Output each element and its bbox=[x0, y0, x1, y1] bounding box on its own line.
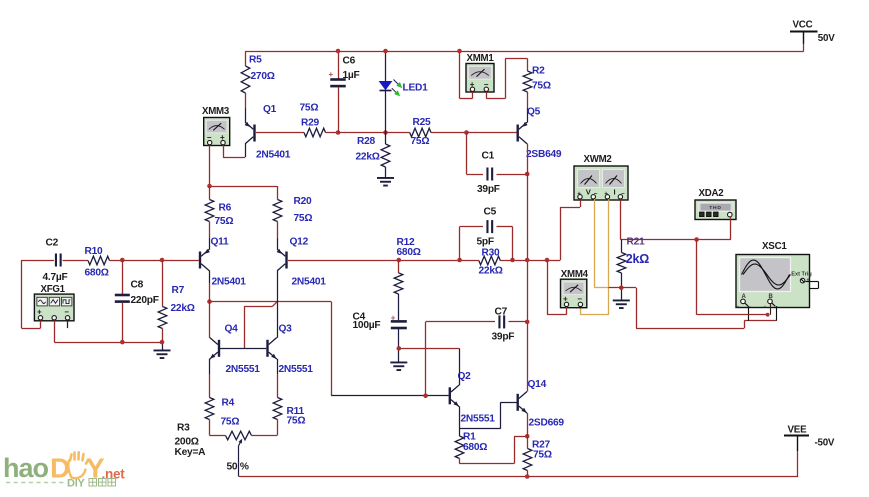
transistor Q11 2N5401 bbox=[199, 236, 246, 287]
capacitor C4 100uF bbox=[353, 294, 407, 362]
svg-text:2kΩ: 2kΩ bbox=[626, 252, 649, 266]
ground below R28 bbox=[377, 177, 394, 187]
wire XFG1 plus to input node bbox=[21, 260, 40, 329]
wire R25 to C1 tap bbox=[431, 132, 466, 134]
wire XWM2 V+ to output node bbox=[560, 199, 580, 260]
distortion analyzer XDA2 bbox=[695, 188, 736, 220]
wire XFG1 common down bbox=[54, 321, 56, 343]
wire rail to XMM1 plus bbox=[460, 51, 473, 99]
svg-text:22kΩ: 22kΩ bbox=[171, 303, 195, 314]
VEE supply symbol bbox=[784, 425, 835, 478]
oscilloscope XSC1 bbox=[736, 241, 812, 310]
svg-text:R10: R10 bbox=[85, 246, 104, 257]
node tail junction bbox=[207, 184, 212, 189]
svg-text:39pF: 39pF bbox=[492, 332, 515, 343]
svg-text:R1: R1 bbox=[463, 432, 476, 443]
node R7 ground junction bbox=[160, 340, 165, 345]
svg-text:2SB649: 2SB649 bbox=[526, 149, 562, 160]
wire scope B input stub bbox=[770, 304, 772, 315]
svg-text:75Ω: 75Ω bbox=[300, 103, 319, 114]
svg-text:R20: R20 bbox=[294, 196, 313, 207]
svg-text:XWM2: XWM2 bbox=[584, 154, 612, 165]
resistor R7 bbox=[158, 260, 195, 342]
svg-text:2N5401: 2N5401 bbox=[212, 277, 247, 288]
resistor R27 bbox=[523, 440, 552, 477]
wire XWM2 V- orange bbox=[595, 199, 609, 288]
wire XMM3 minus to diff pair tail bbox=[209, 145, 211, 186]
svg-text:C1: C1 bbox=[482, 151, 495, 162]
svg-text:75Ω: 75Ω bbox=[532, 81, 551, 92]
VAS drive line from Q11 collector bbox=[210, 301, 332, 303]
svg-text:Key=A: Key=A bbox=[175, 447, 207, 458]
wire ground node to scope A bbox=[609, 288, 777, 329]
node XMM4 tap bbox=[545, 258, 550, 263]
wire XFG1 common to ground node bbox=[54, 342, 162, 344]
node rail XMM1 tap bbox=[457, 49, 462, 54]
svg-text:I: I bbox=[614, 188, 616, 197]
node scope B tap bbox=[694, 237, 699, 242]
node R27 top junction bbox=[525, 434, 530, 439]
function generator XFG1 bbox=[34, 284, 74, 321]
svg-text:2N5551: 2N5551 bbox=[461, 414, 496, 425]
top power rail VCC net bbox=[245, 51, 803, 53]
resistor R5 bbox=[241, 51, 275, 93]
svg-text:+: + bbox=[807, 278, 810, 284]
svg-text:680Ω: 680Ω bbox=[463, 442, 487, 453]
wire R5 to Q1 emitter bbox=[245, 93, 247, 123]
main output feedback line bbox=[288, 260, 560, 262]
svg-text:C8: C8 bbox=[131, 280, 144, 291]
node C7 to output vertical bbox=[525, 320, 530, 325]
node C6 bottom junction bbox=[336, 130, 341, 135]
svg-text:XMM4: XMM4 bbox=[561, 269, 589, 280]
wire Q11 collector to Q4 collector bbox=[209, 271, 211, 338]
svg-text:XFG1: XFG1 bbox=[41, 284, 66, 295]
svg-text:Q12: Q12 bbox=[290, 237, 309, 248]
svg-text:2N5551: 2N5551 bbox=[279, 364, 314, 375]
capacitor C6 1uF bbox=[329, 51, 360, 133]
svg-text:Q3: Q3 bbox=[279, 324, 293, 335]
capacitor C7 39pF bbox=[426, 307, 528, 396]
svg-text:+: + bbox=[329, 70, 334, 79]
svg-text:.net: .net bbox=[102, 467, 126, 482]
resistor R6 bbox=[205, 186, 233, 250]
node R27 bottom on rail bbox=[525, 474, 530, 479]
svg-text:22kΩ: 22kΩ bbox=[356, 152, 380, 163]
svg-text:680Ω: 680Ω bbox=[397, 247, 421, 258]
resistor R28 bbox=[356, 133, 390, 178]
svg-text:270Ω: 270Ω bbox=[251, 71, 275, 82]
svg-text:1µF: 1µF bbox=[343, 70, 360, 81]
wire Q1 base to R29 bbox=[256, 132, 304, 134]
resistor R11 bbox=[273, 359, 305, 436]
svg-text:R7: R7 bbox=[172, 285, 185, 296]
node Q11 collector tap bbox=[207, 299, 212, 304]
wire R21 top line to XDA2 bbox=[620, 239, 731, 241]
svg-text:LED1: LED1 bbox=[403, 83, 429, 94]
resistor R1 bbox=[455, 429, 487, 464]
resistor R25 bbox=[410, 117, 431, 147]
svg-text:75Ω: 75Ω bbox=[533, 450, 552, 461]
wire VAS line down to Q2 base line bbox=[331, 302, 333, 396]
wire Q2 emitter to Q14 base bbox=[459, 402, 516, 429]
svg-text:75Ω: 75Ω bbox=[221, 417, 240, 428]
svg-text:DIY: DIY bbox=[67, 478, 86, 490]
transistor Q3 2N5551 bbox=[266, 324, 313, 376]
capacitor C2 4.7uF bbox=[43, 238, 68, 284]
wire Ext Trig stub bbox=[806, 282, 819, 289]
svg-text:5pF: 5pF bbox=[477, 237, 494, 248]
stub XFG1 minus bbox=[67, 321, 69, 329]
node C5 left tap bbox=[457, 258, 462, 263]
node LED top on rail bbox=[383, 49, 388, 54]
wire output vertical Q5 collector to Q14 collector bbox=[527, 144, 529, 392]
VCC supply symbol bbox=[790, 20, 835, 52]
node output line crossing bbox=[525, 258, 530, 263]
capacitor C1 39pF bbox=[466, 133, 527, 196]
svg-text:Q4: Q4 bbox=[225, 324, 239, 335]
wire XMM3 plus to Q1 collector bbox=[223, 144, 246, 158]
svg-text:hao: hao bbox=[3, 453, 49, 483]
svg-text:R25: R25 bbox=[413, 117, 432, 128]
node C4 ground tap bbox=[397, 346, 402, 351]
svg-text:39pF: 39pF bbox=[477, 184, 500, 195]
svg-text:R2: R2 bbox=[532, 66, 545, 77]
wire XDA2 terminal down bbox=[730, 217, 732, 240]
svg-text:200Ω: 200Ω bbox=[175, 437, 199, 448]
wire C6 node to LED node bbox=[338, 132, 386, 134]
node C8 bottom junction bbox=[120, 340, 125, 345]
svg-text:50 %: 50 % bbox=[227, 462, 249, 473]
haoDIY logo bbox=[3, 452, 125, 489]
svg-text:R3: R3 bbox=[177, 423, 190, 434]
svg-text:50V: 50V bbox=[818, 33, 835, 44]
svg-text:75Ω: 75Ω bbox=[287, 416, 306, 427]
transistor Q5 2SB649 bbox=[517, 107, 562, 161]
svg-text:Q11: Q11 bbox=[211, 236, 230, 247]
svg-text:R30: R30 bbox=[482, 248, 501, 259]
node C8 tap bbox=[120, 258, 125, 263]
resistor R29 bbox=[300, 103, 326, 137]
svg-text:VCC: VCC bbox=[793, 20, 813, 31]
wire R2 to Q5 emitter bbox=[527, 92, 529, 123]
resistor R20 bbox=[273, 186, 312, 250]
svg-text:XMM1: XMM1 bbox=[467, 53, 495, 64]
wire scope A ground elbow bbox=[748, 306, 750, 321]
resistor R10 bbox=[85, 246, 110, 279]
wire XWM2 I- to R21 bbox=[620, 199, 622, 239]
input line wire from C2 node to Q11 base bbox=[21, 260, 54, 262]
svg-text:C2: C2 bbox=[46, 238, 59, 249]
node C7 tap on base line bbox=[423, 394, 428, 399]
LED LED1 bbox=[379, 51, 429, 133]
svg-text:2SD669: 2SD669 bbox=[529, 418, 565, 429]
wire XWM2 I+ orange to XMM4 minus bbox=[580, 199, 608, 315]
node C1 tap junction bbox=[464, 130, 469, 135]
ground at R7 bbox=[154, 342, 171, 359]
svg-text:R4: R4 bbox=[222, 398, 235, 409]
svg-text:R29: R29 bbox=[301, 118, 320, 129]
resistor R21 2k bbox=[617, 236, 649, 299]
potentiometer R3 200 Ohm bbox=[175, 423, 278, 477]
node R7 tap bbox=[160, 258, 165, 263]
svg-text:2N5401: 2N5401 bbox=[292, 277, 327, 288]
node R21 ground tap bbox=[619, 286, 624, 291]
ground below R21 bbox=[613, 300, 630, 310]
node C5 right tap bbox=[510, 258, 515, 263]
resistor R2 bbox=[523, 66, 551, 93]
svg-text:-50V: -50V bbox=[815, 438, 835, 449]
capacitor C5 5pF bbox=[460, 207, 513, 261]
multimeter XMM1 bbox=[466, 53, 494, 92]
wire mirror base feed bbox=[244, 302, 277, 349]
svg-text:2N5551: 2N5551 bbox=[226, 364, 261, 375]
wire Q14 emitter to R27 bbox=[527, 413, 529, 449]
svg-text:R6: R6 bbox=[219, 203, 232, 214]
wire R1 bottom to R27 top node bbox=[459, 436, 527, 463]
svg-text:2N5401: 2N5401 bbox=[256, 150, 291, 161]
node C1 to output vertical bbox=[525, 172, 530, 177]
resistor R12 bbox=[394, 237, 421, 294]
transistor Q4 2N5551 bbox=[210, 324, 261, 376]
wattmeter XWM2 bbox=[574, 154, 628, 200]
svg-text:680Ω: 680Ω bbox=[85, 268, 109, 279]
wire R10 to Q11 base bbox=[110, 260, 199, 262]
svg-text:Q14: Q14 bbox=[528, 379, 547, 390]
transistor Q14 2SD669 bbox=[517, 379, 565, 429]
svg-text:+: + bbox=[391, 314, 396, 323]
resistor R30 bbox=[479, 248, 503, 277]
wire R29 to C6 node bbox=[326, 132, 339, 134]
wire XMM1 minus to R2 bbox=[486, 58, 527, 98]
multimeter XMM4 bbox=[561, 269, 589, 308]
wire Q2 base line bbox=[331, 395, 448, 397]
node R28/LED junction bbox=[383, 130, 388, 135]
svg-text:75Ω: 75Ω bbox=[411, 136, 430, 147]
svg-text:C6: C6 bbox=[343, 56, 356, 67]
svg-text:100µF: 100µF bbox=[353, 320, 381, 331]
svg-text:75Ω: 75Ω bbox=[294, 213, 313, 224]
svg-text:−: − bbox=[64, 307, 69, 316]
svg-text:XDA2: XDA2 bbox=[699, 188, 724, 199]
wire signal to scope B bbox=[697, 240, 770, 315]
svg-text:75Ω: 75Ω bbox=[215, 216, 234, 227]
ground below C4 bbox=[390, 362, 407, 372]
svg-text:R28: R28 bbox=[357, 136, 376, 147]
node scope B junction bbox=[766, 313, 770, 317]
wire R6 R20 top link bbox=[210, 186, 278, 188]
bottom rail wire to VEE bbox=[239, 476, 798, 478]
svg-text:Q1: Q1 bbox=[263, 104, 277, 115]
svg-text:THD: THD bbox=[709, 205, 721, 211]
svg-text:4.7µF: 4.7µF bbox=[43, 272, 68, 283]
svg-text:C5: C5 bbox=[484, 207, 497, 218]
wire C1 tap to Q5 base bbox=[466, 132, 516, 134]
svg-text:VEE: VEE bbox=[788, 425, 808, 436]
resistor R4 bbox=[205, 359, 239, 436]
multimeter XMM3 bbox=[202, 106, 230, 146]
node R12 tap bbox=[397, 258, 402, 263]
transistor Q1 2N5401 bbox=[245, 104, 291, 161]
svg-text:220pF: 220pF bbox=[131, 295, 159, 306]
wire C2 to R10 bbox=[63, 260, 88, 262]
svg-text:Q5: Q5 bbox=[527, 107, 541, 118]
svg-text:R5: R5 bbox=[249, 55, 262, 66]
node C6 top on rail bbox=[336, 49, 341, 54]
wire XMM4 plus to output node bbox=[547, 260, 567, 315]
svg-text:XMM3: XMM3 bbox=[202, 106, 230, 117]
wire Q2 collector bbox=[459, 348, 461, 385]
wire Q12 collector to Q3 collector bbox=[277, 271, 279, 338]
wire C4 node to Q2 collector bbox=[399, 348, 460, 350]
svg-text:R21: R21 bbox=[627, 236, 646, 247]
wire Q4 Q3 base link bbox=[220, 348, 266, 350]
wire scope B ground elbow bbox=[776, 306, 778, 321]
wire LED node to R25 bbox=[386, 132, 410, 134]
svg-text:C7: C7 bbox=[495, 307, 508, 318]
transistor Q12 2N5401 bbox=[277, 237, 327, 288]
svg-text:+: + bbox=[37, 307, 42, 316]
capacitor C8 220pF bbox=[115, 260, 159, 342]
svg-text:XSC1: XSC1 bbox=[762, 241, 787, 252]
transistor Q2 2N5551 bbox=[449, 371, 496, 425]
svg-text:22kΩ: 22kΩ bbox=[479, 266, 503, 277]
svg-text:Ext Trig: Ext Trig bbox=[791, 272, 812, 278]
